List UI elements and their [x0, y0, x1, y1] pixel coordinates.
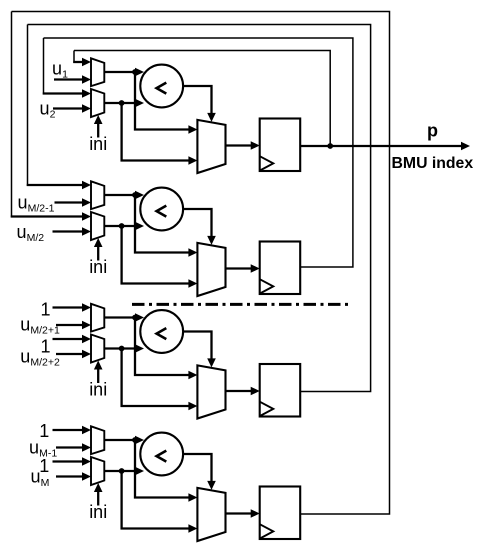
wire branch mux2a output to output-mux input 1	[135, 195, 197, 257]
svg-text:M: M	[41, 477, 50, 489]
wire mux3b output to comparator	[104, 344, 144, 353]
svg-text:u: u	[20, 315, 30, 335]
node junction mux1b output	[119, 100, 125, 106]
ini select arrow block3	[94, 361, 103, 384]
comparator block3	[140, 310, 183, 353]
svg-text:p: p	[427, 120, 438, 140]
wire feedback loop D (register1 to mux A1)	[74, 51, 330, 147]
wire mux2a output to comparator	[104, 191, 144, 200]
svg-text:u: u	[29, 438, 39, 458]
wire input u2	[53, 104, 91, 113]
label ini block1	[89, 134, 107, 154]
comparator block1	[140, 65, 183, 108]
wire branch mux4b output to output-mux input 2	[122, 471, 198, 533]
wire output-mux4 to register	[226, 509, 260, 518]
wire feedback loop C (register2 to mux A2)	[44, 38, 353, 267]
node junction mux4a output	[132, 437, 138, 443]
wire feedback loop self into mux A1 input 1	[73, 51, 91, 67]
mux block3 lower 2:1	[91, 335, 104, 363]
svg-text:1: 1	[39, 456, 49, 476]
svg-text:ini: ini	[89, 502, 107, 522]
ini select arrow block1	[94, 115, 103, 138]
register block2	[260, 242, 301, 295]
mux block1 output 2:1	[197, 120, 225, 173]
wire comparator4 output to mux select	[183, 454, 216, 490]
label uM	[31, 467, 50, 489]
node junction mux2a output	[132, 192, 138, 198]
register block1	[260, 119, 301, 172]
mux block3 upper 2:1	[91, 304, 104, 332]
wire feedback loop B (register3 to mux B1)	[28, 25, 371, 392]
node junction mux3a output	[132, 315, 138, 321]
svg-text:u: u	[52, 58, 62, 78]
wire feedback loop C into mux A2 input 1	[43, 38, 91, 98]
wire mux1a output to comparator	[104, 68, 144, 77]
mux block2 lower 2:1	[91, 212, 104, 240]
wire input u1	[54, 75, 91, 84]
mux block2 output 2:1	[197, 243, 225, 296]
wire input uM/2-1	[55, 198, 92, 207]
mux block1 upper 2:1	[91, 58, 104, 86]
svg-text:M/2+2: M/2+2	[30, 357, 60, 369]
wire branch mux1a output to output-mux input 1	[135, 72, 197, 134]
svg-text:1: 1	[39, 421, 49, 441]
wire constant 1 into block 4 mux 2	[53, 457, 92, 466]
wire input uM/2+2	[56, 350, 91, 359]
node junction mux3b output	[119, 346, 125, 352]
mux block4 upper 2:1	[91, 426, 104, 454]
wire branch mux1b output to output-mux input 2	[122, 103, 198, 165]
svg-text:BMU index: BMU index	[392, 155, 474, 172]
svg-text:ini: ini	[89, 134, 107, 154]
mux block3 output 2:1	[197, 365, 225, 418]
node junction mux2b output	[119, 223, 125, 229]
wire feedback loop A (register4 to mux B2)	[12, 12, 390, 515]
svg-text:u: u	[20, 347, 30, 367]
register block3	[260, 364, 301, 417]
mux block1 lower 2:1	[91, 89, 104, 117]
label ini block3	[89, 379, 107, 399]
comparator block4	[140, 433, 183, 476]
node junction register1 output	[327, 143, 333, 149]
wire mux4a output to comparator	[104, 436, 144, 445]
wire input uM/2	[53, 227, 92, 236]
register block4	[260, 487, 301, 540]
wire mux1b output to comparator	[104, 99, 144, 108]
label ini block4	[89, 502, 107, 522]
wire output-mux2 to register	[226, 264, 260, 273]
wire mux3a output to comparator	[104, 313, 144, 322]
ini select arrow block2	[94, 238, 103, 261]
wire comparator3 output to mux select	[183, 332, 216, 368]
svg-text:1: 1	[41, 299, 51, 319]
wire output-mux3 to register	[226, 387, 260, 396]
svg-text:u: u	[31, 467, 41, 487]
wire branch mux3a output to output-mux input 1	[135, 318, 197, 380]
wire input uM	[56, 472, 91, 481]
node junction mux1a output	[132, 69, 138, 75]
wire branch mux2b output to output-mux input 2	[122, 226, 198, 288]
wire mux4b output to comparator	[104, 467, 144, 476]
label uM/2	[17, 222, 45, 244]
comparator block2	[140, 188, 183, 231]
label p	[427, 120, 438, 140]
svg-text:M/2+1: M/2+1	[30, 325, 60, 337]
label uM/2-1	[18, 193, 55, 215]
wire input uM-1	[56, 443, 91, 452]
label constant 1 (block 4 mux input 3)	[39, 456, 49, 476]
label ini block2	[89, 257, 107, 277]
divider dash-dot line	[132, 303, 350, 306]
mux block4 output 2:1	[197, 488, 225, 541]
svg-text:2: 2	[50, 109, 56, 121]
wire branch mux4a output to output-mux input 1	[135, 440, 197, 502]
label uM-1	[29, 438, 57, 460]
wire output-mux1 to register	[226, 141, 260, 150]
node junction mux4b output	[119, 468, 125, 474]
ini select arrow block4	[94, 483, 103, 506]
svg-text:u: u	[40, 99, 50, 119]
label constant 1 (block 4 mux input 1)	[39, 421, 49, 441]
wire constant 1 into block 3 mux 1	[53, 303, 92, 312]
wire register1 output to p output	[300, 142, 470, 151]
svg-text:ini: ini	[89, 257, 107, 277]
label constant 1 (block 3 mux input 3)	[41, 336, 51, 356]
svg-text:M/2: M/2	[27, 232, 45, 244]
mux block4 lower 2:1	[91, 457, 104, 485]
label uM/2+1	[20, 315, 60, 337]
wire constant 1 into block 3 mux 2	[53, 335, 92, 344]
wire feedback loop B into mux B1 input 1	[27, 25, 91, 190]
label BMU index	[392, 155, 474, 172]
label u1	[52, 58, 68, 80]
wire constant 1 into block 4 mux 1	[53, 426, 92, 435]
wire comparator2 output to mux select	[183, 209, 216, 245]
mux block2 upper 2:1	[91, 181, 104, 209]
svg-text:1: 1	[41, 336, 51, 356]
wire feedback loop A into mux B2 input 1	[11, 12, 91, 221]
wire branch mux3b output to output-mux input 2	[122, 349, 198, 411]
wire input uM/2+1	[56, 321, 91, 330]
svg-text:M/2-1: M/2-1	[28, 203, 55, 215]
svg-text:u: u	[18, 193, 28, 213]
wire mux2b output to comparator	[104, 222, 144, 231]
label uM/2+2	[20, 347, 60, 369]
svg-text:u: u	[17, 222, 27, 242]
wire comparator1 output to mux select	[183, 86, 216, 122]
svg-text:ini: ini	[89, 379, 107, 399]
label constant 1 (block 3 mux input 1)	[41, 299, 51, 319]
label u2	[40, 99, 56, 121]
